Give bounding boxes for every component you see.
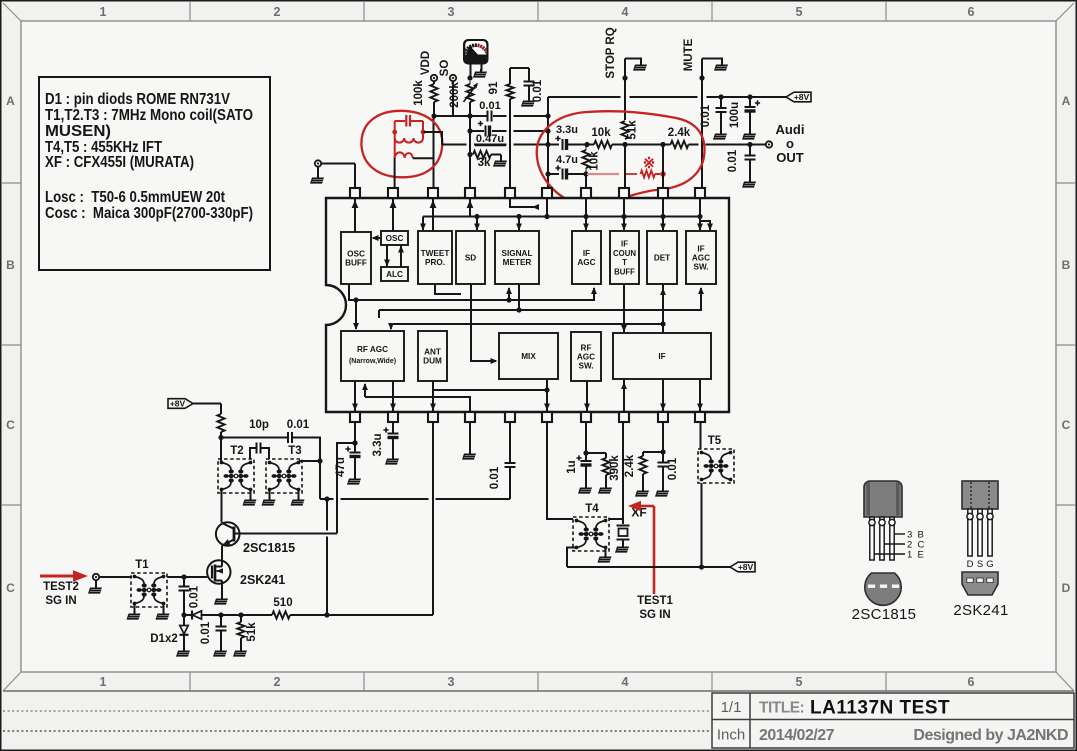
ground XF xyxy=(615,544,629,553)
capacitor 0.01 top right xyxy=(524,68,545,102)
resistor 10k vertical xyxy=(582,145,600,175)
block ANT DUM xyxy=(418,331,447,381)
svg-text:51k: 51k xyxy=(627,120,639,140)
ground 51k lower xyxy=(233,648,247,657)
wire 91 down to pin 5 xyxy=(509,99,511,188)
svg-text:4.7u: 4.7u xyxy=(556,154,578,166)
svg-text:RF AGC: RF AGC xyxy=(357,345,388,354)
wire MUTE xyxy=(699,59,722,189)
IC wire rfagc to pin2b xyxy=(390,381,396,411)
red circle annotation right xyxy=(537,111,705,204)
meter left lead wire xyxy=(470,65,472,79)
label TEST1 SG IN xyxy=(637,595,673,621)
svg-text:390k: 390k xyxy=(609,455,621,481)
meter M1 xyxy=(463,39,489,65)
package 2SC1815 bottom view xyxy=(865,573,901,605)
red reference mark xyxy=(643,155,656,172)
IC rail M2 xyxy=(379,287,704,318)
svg-text:TEST1: TEST1 xyxy=(637,595,673,607)
svg-text:(Narrow,Wide): (Narrow,Wide) xyxy=(349,358,396,365)
junction bus116 xyxy=(467,113,550,118)
IC wire rfagcsw to pin7b xyxy=(584,381,590,411)
svg-text:10k: 10k xyxy=(589,151,601,171)
ground STOP RQ xyxy=(633,62,647,71)
label 2SC1815 xyxy=(243,541,295,555)
capacitor 0.01 pin9b xyxy=(658,452,680,490)
svg-text:D1x2: D1x2 xyxy=(150,633,178,645)
wire red coil to pin 2 xyxy=(394,158,396,188)
svg-text:SIGNAL: SIGNAL xyxy=(502,249,533,258)
capacitor 0.01 agc xyxy=(200,615,227,650)
svg-text:T: T xyxy=(622,258,627,267)
svg-text:2: 2 xyxy=(274,5,281,19)
package 2SC1815 leads xyxy=(869,517,895,560)
svg-text:G: G xyxy=(986,559,993,570)
terminal ground left xyxy=(310,160,324,183)
wire pin6b to T4 xyxy=(547,422,573,519)
junction meter-200k xyxy=(467,75,472,80)
power bus +8V bottom xyxy=(567,564,730,569)
svg-text:SD: SD xyxy=(465,254,476,263)
IC rail B1 xyxy=(362,383,470,411)
ground 0.01 top right xyxy=(521,98,535,107)
svg-text:100k: 100k xyxy=(413,80,425,106)
notes box xyxy=(39,77,270,270)
svg-text:MUTE: MUTE xyxy=(683,38,695,71)
capacitor 0.01 gate xyxy=(179,577,201,615)
wire 0.01 to T3 right xyxy=(292,438,320,462)
label 2SK241 xyxy=(240,573,285,587)
package 2SC1815 pin labels xyxy=(874,530,925,561)
block TWEET PRO xyxy=(418,231,452,284)
svg-text:10p: 10p xyxy=(249,419,269,431)
IC rail L1 xyxy=(423,216,701,218)
ground 2.4k vertical xyxy=(635,488,649,497)
wire pin7b to 1u xyxy=(583,422,588,456)
ground T4 xyxy=(598,548,612,563)
IC wire if to pin10b xyxy=(697,379,703,411)
junction audio xyxy=(660,142,752,147)
svg-text:2.4k: 2.4k xyxy=(668,127,691,139)
svg-text:4: 4 xyxy=(622,675,629,689)
wire T5 to 8V bus xyxy=(701,483,703,567)
svg-text:o: o xyxy=(786,136,794,151)
block IF COUNT BUFF xyxy=(610,231,639,284)
red circle annotation left xyxy=(361,111,442,178)
ground 0.01 supply xyxy=(713,131,727,140)
ground T1 right xyxy=(156,604,170,620)
svg-text:6: 6 xyxy=(968,5,975,19)
svg-text:+8V: +8V xyxy=(170,399,186,409)
wire source to ground xyxy=(221,584,223,598)
svg-text:510: 510 xyxy=(273,597,292,609)
svg-text:2014/02/27: 2014/02/27 xyxy=(759,727,835,744)
capacitor 10p xyxy=(249,419,269,459)
svg-text:0.01: 0.01 xyxy=(200,621,212,644)
ground T1 left xyxy=(127,604,141,620)
svg-text:IF: IF xyxy=(583,249,590,258)
svg-text:C: C xyxy=(6,418,15,432)
svg-text:T3: T3 xyxy=(288,445,301,457)
IC wire pin4 to L1 xyxy=(467,199,474,217)
frame column ticks bottom xyxy=(189,672,191,691)
capacitor 0.01 t2t3 xyxy=(287,419,310,443)
svg-text:1 E: 1 E xyxy=(907,550,924,561)
svg-text:B: B xyxy=(6,258,15,272)
wire pin8 up xyxy=(585,174,587,188)
IC wire pin6 to L1 xyxy=(544,199,549,219)
svg-text:DUM: DUM xyxy=(423,357,442,366)
svg-text:METER: METER xyxy=(503,258,532,267)
IC arrow osc to oscbuff xyxy=(372,235,382,241)
bus 0.47u line y131 xyxy=(470,130,548,132)
svg-text:2SK241: 2SK241 xyxy=(240,573,285,587)
IC wire L1 to tweet xyxy=(420,217,426,231)
svg-text:TITLE:: TITLE: xyxy=(759,700,804,717)
transformer T3 xyxy=(266,445,302,493)
svg-text:MUSEN): MUSEN) xyxy=(45,123,111,140)
terminal VDD xyxy=(420,51,437,81)
svg-text:SW.: SW. xyxy=(578,362,593,371)
svg-text:0.01: 0.01 xyxy=(532,79,544,102)
svg-text:2SC1815: 2SC1815 xyxy=(243,541,295,555)
frame row ticks right xyxy=(1056,182,1075,184)
wire 91 top to 0.01 xyxy=(510,67,529,69)
svg-text:0.01: 0.01 xyxy=(287,419,310,431)
transformer T1 xyxy=(131,559,167,607)
svg-text:+8V: +8V xyxy=(794,92,810,102)
svg-text:5: 5 xyxy=(796,5,803,19)
package 2SK241 bottom view xyxy=(962,572,998,595)
svg-text:BUFF: BUFF xyxy=(614,267,635,276)
svg-text:2SC1815: 2SC1815 xyxy=(852,606,917,623)
svg-text:3.3u: 3.3u xyxy=(372,433,384,456)
red coil secondary xyxy=(395,152,413,158)
IC wire M1 to rfagc xyxy=(353,297,359,330)
svg-text:3.3u: 3.3u xyxy=(556,124,578,136)
ground MUTE xyxy=(714,62,728,71)
bus 0.01 line y116 xyxy=(434,115,548,117)
svg-text:2: 2 xyxy=(274,675,281,689)
svg-text:3k: 3k xyxy=(478,157,491,169)
wire T3 right to bus xyxy=(299,458,323,499)
red LC inductor loop xyxy=(392,121,425,158)
IC wire SD to MIX xyxy=(471,284,498,364)
IC wire L1 to SD xyxy=(474,214,480,231)
svg-text:S: S xyxy=(977,559,983,570)
svg-text:SG IN: SG IN xyxy=(639,609,670,621)
block OSC BUFF xyxy=(341,232,371,284)
resistor 51k xyxy=(620,120,639,142)
ground 0.01 pin9b xyxy=(655,488,669,497)
frame row ticks left xyxy=(2,182,21,184)
IC LA1137N outline xyxy=(326,198,729,412)
resistor 2.4k xyxy=(668,127,766,148)
svg-text:Cosc : Maica 300pF(2700-330pF: Cosc : Maica 300pF(2700-330pF) xyxy=(45,205,253,222)
block ALC xyxy=(381,267,408,281)
resistor bias vertical xyxy=(217,414,224,459)
meter right lead wire xyxy=(481,65,483,72)
block MIX xyxy=(499,333,558,379)
wire terminal to pin 1 xyxy=(321,164,355,189)
svg-text:XF : CFX455I (MURATA): XF : CFX455I (MURATA) xyxy=(45,154,194,171)
svg-text:Audi: Audi xyxy=(776,122,805,137)
svg-text:+8V: +8V xyxy=(738,562,754,572)
svg-text:OSC: OSC xyxy=(386,234,404,243)
wire emitter xyxy=(221,546,223,562)
ground 1u xyxy=(578,485,592,494)
svg-text:T5: T5 xyxy=(708,435,722,447)
svg-text:0.01: 0.01 xyxy=(189,585,201,608)
junction bus 8V xyxy=(718,94,752,99)
potentiometer 200k xyxy=(449,81,480,108)
ground D1 xyxy=(176,648,190,657)
wire pin9b to 2.4k xyxy=(643,422,666,455)
svg-text:100u: 100u xyxy=(729,102,741,128)
junction bus131 xyxy=(467,128,550,133)
title block xyxy=(712,693,1074,748)
wire 8V to resistor xyxy=(193,404,221,415)
svg-text:LA1137N TEST: LA1137N TEST xyxy=(810,698,950,719)
svg-text:D: D xyxy=(1062,581,1071,595)
terminal Audio OUT xyxy=(766,141,772,147)
wire pin8b to T4 xyxy=(609,422,623,519)
svg-text:DET: DET xyxy=(654,254,670,263)
IC pins bottom xyxy=(350,412,705,422)
frame corner bevels xyxy=(3,3,21,21)
wire bias node right xyxy=(221,437,288,439)
ground T2 right xyxy=(243,490,257,506)
transistor 2SK241 fet xyxy=(207,560,230,584)
IC wire osc-alc down xyxy=(384,245,390,267)
IC wire det-if xyxy=(660,284,666,333)
wire base route xyxy=(337,440,358,533)
wire T4 left down xyxy=(567,548,577,568)
junction gate cap xyxy=(181,612,186,617)
svg-text:VDD: VDD xyxy=(420,51,432,75)
flag +8V bottom xyxy=(730,562,755,572)
svg-text:0.01: 0.01 xyxy=(727,149,739,172)
label Audio OUT xyxy=(776,122,805,165)
ground 3.3u pin2 xyxy=(385,456,399,465)
svg-text:0.01: 0.01 xyxy=(479,100,500,112)
svg-text:91: 91 xyxy=(488,81,500,94)
capacitor 0.01 supply xyxy=(700,97,727,133)
diode D1 vertical xyxy=(180,615,189,650)
svg-text:1u: 1u xyxy=(566,460,578,473)
transistor 2SC1815 xyxy=(216,522,337,548)
svg-text:B: B xyxy=(1062,258,1071,272)
ground T3 left xyxy=(262,490,276,506)
svg-text:3: 3 xyxy=(448,5,455,19)
ground 2SK241 xyxy=(214,596,228,605)
block SD xyxy=(456,231,485,284)
block IF AGC SW xyxy=(686,231,716,284)
junction 3.3u right xyxy=(567,142,595,147)
svg-text:D: D xyxy=(967,559,974,570)
terminal SO xyxy=(439,60,456,82)
wire red cap to bus xyxy=(424,132,443,145)
capacitor 0.01 pin5b xyxy=(489,422,516,499)
capacitor 47u xyxy=(335,446,361,478)
ground pin4b xyxy=(462,451,476,460)
svg-text:AGC: AGC xyxy=(577,258,595,267)
label STOP RQ xyxy=(605,27,617,78)
IC wire if to pin9b xyxy=(660,379,666,411)
svg-text:200k: 200k xyxy=(449,82,461,108)
resistor 51k lower xyxy=(237,615,258,650)
wire T1 to fet gate xyxy=(167,574,207,579)
wire test2 to T1 xyxy=(99,576,132,578)
label MUTE xyxy=(683,38,695,71)
resistor 10k horizontal xyxy=(591,127,670,148)
svg-text:C: C xyxy=(1062,418,1071,432)
IC wire ifcount-if xyxy=(621,284,627,332)
svg-text:A: A xyxy=(1062,94,1071,108)
svg-text:ALC: ALC xyxy=(386,270,403,279)
svg-text:6: 6 xyxy=(968,675,975,689)
svg-text:IF: IF xyxy=(697,244,704,253)
block DET xyxy=(647,231,677,284)
label XF xyxy=(631,506,646,520)
svg-text:※: ※ xyxy=(643,155,656,172)
package 2SK241 pin labels xyxy=(967,559,994,570)
transformer T5 xyxy=(698,435,734,483)
svg-text:Losc : T50-6 0.5mmUEW 20t: Losc : T50-6 0.5mmUEW 20t xyxy=(45,189,225,206)
ground 47u xyxy=(347,476,361,485)
svg-text:PRO.: PRO. xyxy=(425,258,445,267)
wire pin1b down xyxy=(352,422,357,453)
wire T2 to transistor xyxy=(221,490,223,523)
ground meter xyxy=(473,69,487,78)
resistor 390k xyxy=(586,453,621,487)
wire 200k down to pin 4 xyxy=(469,102,471,188)
svg-text:T1,T2.T3 : 7MHz Mono coil(SATO: T1,T2.T3 : 7MHz Mono coil(SATO xyxy=(45,107,253,124)
IC rail M1 xyxy=(349,284,597,300)
svg-text:5: 5 xyxy=(796,675,803,689)
IC wire osc to pin2 xyxy=(390,199,397,231)
block SIGNAL METER xyxy=(495,231,539,284)
wire red coil right step xyxy=(413,157,433,159)
svg-text:AGC: AGC xyxy=(692,254,710,263)
flag +8V left xyxy=(168,399,193,409)
capacitor 1u xyxy=(566,453,592,487)
transformer T4 xyxy=(573,503,609,551)
svg-text:BUFF: BUFF xyxy=(345,259,367,268)
IC wire sigmeter down xyxy=(516,284,521,313)
ground terminal TEST2 xyxy=(88,580,102,593)
IC rail M3 xyxy=(388,321,666,330)
resistor 2.4k vertical xyxy=(624,452,647,490)
IC wire alc-osc up xyxy=(398,246,404,268)
junction 615 line xyxy=(218,612,243,617)
capacitor 100u xyxy=(729,97,760,133)
red resistor xyxy=(641,171,666,178)
svg-text:IF: IF xyxy=(658,352,665,361)
svg-text:Designed by JA2NKD: Designed by JA2NKD xyxy=(913,727,1068,744)
block RF AGC xyxy=(341,331,404,381)
capacitor 0.01 audio xyxy=(727,145,756,182)
bottom strip dotted fold lines xyxy=(3,710,712,712)
svg-text:2.4k: 2.4k xyxy=(624,454,636,477)
wire pin3b riser xyxy=(432,422,434,615)
svg-text:STOP RQ: STOP RQ xyxy=(605,27,617,78)
capacitor 0.47u xyxy=(475,121,506,146)
IC wire M1 to sigmeter bottom xyxy=(506,287,512,303)
svg-text:COUN: COUN xyxy=(613,249,636,258)
svg-text:0.01: 0.01 xyxy=(489,466,501,489)
resistor 510 xyxy=(201,597,434,619)
IC wire antdum to pin3b xyxy=(430,381,436,411)
wire rf riser x327 xyxy=(324,496,329,615)
svg-text:OSC: OSC xyxy=(347,249,365,258)
wire 4.7u to 10k node xyxy=(567,171,589,176)
svg-text:1: 1 xyxy=(100,675,107,689)
IC wire L1 to sigmeter xyxy=(516,214,522,231)
svg-text:C: C xyxy=(6,581,15,595)
capacitor 3.3u xyxy=(555,124,578,150)
svg-text:51k: 51k xyxy=(246,622,258,642)
ground 390k xyxy=(598,485,612,494)
ground 0.01 agc xyxy=(213,648,227,657)
flag +8V top xyxy=(786,92,811,102)
terminal TEST2 xyxy=(93,574,99,580)
label 2SK241 pkg xyxy=(953,602,1008,619)
svg-text:Inch: Inch xyxy=(717,727,745,744)
red arrow TEST2 xyxy=(40,570,88,582)
label D1x2 xyxy=(150,633,178,645)
resistor 100k xyxy=(413,80,438,116)
svg-text:D1 : pin diods ROME RN731V: D1 : pin diods ROME RN731V xyxy=(45,91,231,108)
IC wire pin9 to det xyxy=(660,199,666,231)
frame column ticks top xyxy=(189,2,191,21)
wire pin10b to T5 xyxy=(700,422,702,449)
package 2SK241 front xyxy=(962,481,998,509)
svg-text:0.47u: 0.47u xyxy=(476,133,504,145)
crystal XF xyxy=(617,519,630,546)
svg-text:A: A xyxy=(6,94,15,108)
svg-text:2SK241: 2SK241 xyxy=(953,602,1008,619)
IC wire pin8 to ifcount xyxy=(621,199,627,231)
wire pin4b stub xyxy=(469,422,471,453)
IC wire pin5 internal xyxy=(510,199,539,210)
package 2SC1815 front xyxy=(864,481,902,517)
wire VDD node down to pin 3 xyxy=(433,116,435,188)
svg-text:0.01: 0.01 xyxy=(667,457,679,480)
IC wire tweet to pin3 xyxy=(430,199,437,231)
svg-text:OUT: OUT xyxy=(776,150,804,165)
block IF xyxy=(613,333,711,379)
svg-text:0.01: 0.01 xyxy=(700,104,712,127)
svg-text:4: 4 xyxy=(622,5,629,19)
package 2SK241 leads xyxy=(967,509,993,556)
svg-text:SO: SO xyxy=(439,60,451,77)
svg-text:SG IN: SG IN xyxy=(45,595,76,607)
svg-text:SW.: SW. xyxy=(693,263,708,272)
transformer T2 xyxy=(218,445,254,493)
notes text xyxy=(45,91,253,222)
capacitor 0.01 bus xyxy=(479,100,500,122)
svg-text:IF: IF xyxy=(621,240,628,249)
svg-text:ANT: ANT xyxy=(424,347,441,356)
IC wire rfagc to pin1b xyxy=(352,381,358,411)
wire STOP RQ xyxy=(622,59,641,189)
svg-text:T4: T4 xyxy=(585,503,599,515)
bus T3-0.01 y499 xyxy=(320,498,510,500)
wire T2 top xyxy=(220,438,222,463)
ground 100u xyxy=(742,131,756,140)
svg-text:1: 1 xyxy=(100,5,107,19)
